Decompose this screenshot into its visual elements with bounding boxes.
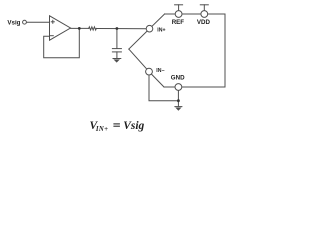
- svg-text:IN+: IN+: [95, 126, 108, 133]
- svg-text:REF: REF: [172, 19, 185, 26]
- svg-text:IN+: IN+: [157, 27, 165, 33]
- svg-text:Vsig: Vsig: [7, 19, 20, 26]
- svg-text:VDD: VDD: [197, 19, 211, 26]
- svg-text:IN−: IN−: [156, 68, 164, 74]
- svg-text:GND: GND: [171, 75, 185, 82]
- svg-text:Vsig: Vsig: [123, 120, 144, 132]
